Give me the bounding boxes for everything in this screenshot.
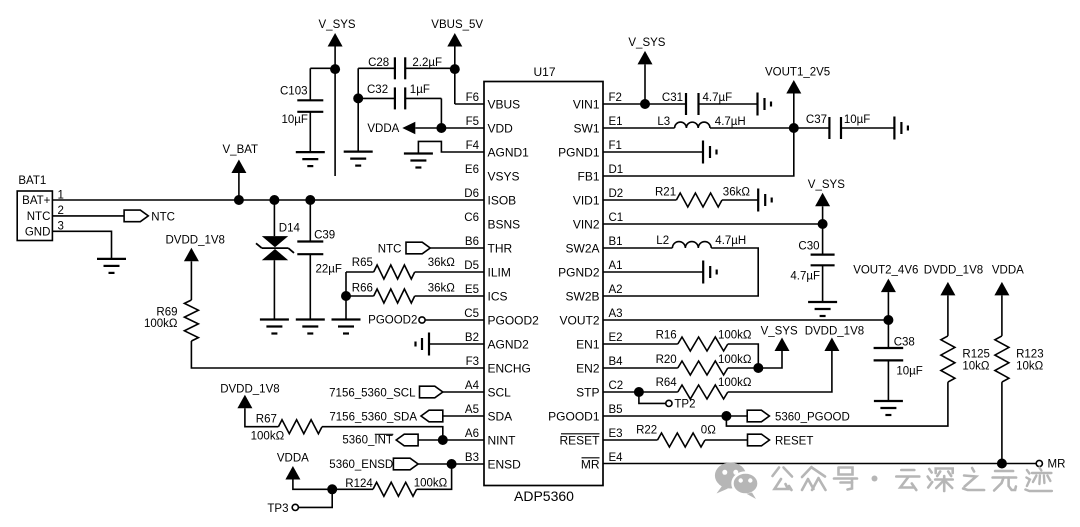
svg-text:VOUT2_4V6: VOUT2_4V6 — [853, 265, 918, 277]
watermark separator dot — [872, 476, 878, 482]
node junction STP/TP2 — [634, 387, 644, 397]
svg-text:ISOB: ISOB — [488, 193, 517, 207]
svg-text:PGOOD2: PGOOD2 — [368, 314, 417, 326]
svg-text:4.7µF: 4.7µF — [703, 92, 733, 104]
svg-text:U17: U17 — [534, 65, 556, 79]
svg-text:100kΩ: 100kΩ — [718, 329, 752, 341]
resistor R69 — [184, 300, 198, 341]
svg-text:VDDA: VDDA — [367, 123, 399, 135]
svg-text:F1: F1 — [609, 140, 622, 152]
svg-text:A3: A3 — [609, 308, 623, 320]
svg-text:NTC: NTC — [151, 212, 175, 224]
svg-text:E6: E6 — [465, 164, 479, 176]
ground (PGND2) — [702, 261, 704, 284]
svg-text:B1: B1 — [609, 236, 623, 248]
resistor R21 — [676, 193, 722, 207]
wire PGOOD1 to R125 — [726, 382, 948, 426]
svg-text:NTC: NTC — [378, 243, 402, 255]
svg-text:FB1: FB1 — [577, 169, 599, 183]
wire L2 to SW2B — [603, 248, 758, 296]
svg-text:VIN1: VIN1 — [573, 97, 600, 111]
node junction ENSD/R124 — [447, 459, 457, 469]
svg-text:36kΩ: 36kΩ — [428, 257, 456, 269]
wire PGOOD1 to flag — [603, 415, 747, 417]
svg-text:L2: L2 — [656, 235, 669, 247]
svg-text:C37: C37 — [806, 114, 827, 126]
wire L3 to VOUT1 node — [710, 127, 829, 129]
svg-text:TP3: TP3 — [267, 503, 288, 515]
svg-text:GND: GND — [25, 226, 51, 238]
watermark text 迹 — [1039, 468, 1041, 471]
ground (R65/R66) — [332, 318, 361, 320]
svg-text:VDD: VDD — [488, 121, 514, 135]
wire AGND2 stub B2 — [429, 343, 484, 345]
wire D14 top — [273, 200, 275, 236]
wire R123 bottom lead — [1001, 382, 1003, 463]
svg-text:10µF: 10µF — [282, 114, 308, 126]
terminal TP2 — [666, 400, 672, 406]
svg-text:D5: D5 — [464, 260, 479, 272]
resistor R123 — [995, 336, 1009, 382]
svg-text:R123: R123 — [1016, 348, 1044, 360]
node junction VBUS_5V/C28 — [450, 64, 460, 74]
svg-text:MR: MR — [581, 457, 600, 471]
svg-text:100kΩ: 100kΩ — [251, 431, 285, 443]
svg-text:5360_INT: 5360_INT — [342, 435, 393, 447]
inductor L2 — [672, 242, 711, 248]
svg-text:D1: D1 — [609, 164, 624, 176]
svg-text:E4: E4 — [609, 452, 624, 464]
svg-text:THR: THR — [488, 241, 513, 255]
watermark text 众 — [802, 467, 812, 477]
ground (C103) — [296, 151, 325, 153]
wire R67 left lead — [245, 408, 279, 427]
wire D14 bottom — [273, 260, 275, 319]
wire VOUT1 stem — [793, 94, 795, 129]
wire R16 to EN2 node — [728, 344, 759, 368]
resistor R67 — [278, 420, 322, 434]
svg-text:SW2B: SW2B — [565, 289, 599, 303]
svg-text:PGOOD1: PGOOD1 — [548, 409, 600, 423]
svg-text:4.7µH: 4.7µH — [715, 235, 746, 247]
svg-text:EN2: EN2 — [576, 361, 600, 375]
resistor R64 — [678, 385, 728, 399]
svg-text:VDDA: VDDA — [992, 265, 1024, 277]
svg-text:A6: A6 — [465, 428, 479, 440]
svg-text:E3: E3 — [609, 428, 623, 440]
wire SW2A to L2 — [603, 247, 672, 249]
svg-text:E5: E5 — [465, 284, 479, 296]
svg-text:100kΩ: 100kΩ — [718, 377, 752, 389]
svg-text:VDDA: VDDA — [277, 452, 309, 464]
node junction VIN2 — [818, 219, 828, 229]
svg-text:B2: B2 — [465, 332, 479, 344]
svg-text:NTC: NTC — [27, 211, 51, 223]
ground (C30) — [808, 301, 837, 303]
node junction C39 — [305, 195, 315, 205]
wire R69 to ENCHG pin F3 — [191, 341, 484, 368]
node junction D14 — [269, 195, 279, 205]
wire R123 top lead — [1001, 295, 1003, 336]
svg-text:R20: R20 — [656, 354, 677, 366]
svg-text:C5: C5 — [464, 308, 479, 320]
ground (AGND1) — [404, 152, 433, 154]
capacitor C28 — [358, 67, 395, 69]
capacitor C39 — [309, 200, 311, 242]
svg-text:C30: C30 — [798, 240, 819, 252]
svg-text:STP: STP — [576, 385, 599, 399]
svg-text:VSYS: VSYS — [488, 169, 520, 183]
net flag RESET — [748, 434, 770, 446]
svg-text:A5: A5 — [465, 404, 479, 416]
watermark WeChat icon — [715, 463, 746, 489]
svg-text:V_SYS: V_SYS — [628, 37, 665, 49]
svg-text:0Ω: 0Ω — [701, 424, 716, 436]
svg-text:10kΩ: 10kΩ — [1016, 360, 1044, 372]
wire VDDA to R124 — [293, 480, 373, 490]
capacitor C30 — [822, 224, 824, 255]
svg-text:VBUS_5V: VBUS_5V — [431, 19, 483, 31]
wire SW1 to L3 — [603, 127, 675, 129]
wire GND pin to ground — [52, 231, 111, 259]
svg-text:A1: A1 — [609, 260, 623, 272]
ground (PGND1) — [702, 141, 704, 164]
svg-text:E1: E1 — [609, 116, 623, 128]
resistor R66 — [374, 289, 415, 303]
watermark text 公 — [773, 468, 780, 477]
svg-text:DVDD_1V8: DVDD_1V8 — [220, 383, 279, 395]
wire R69 top lead — [190, 261, 192, 300]
svg-text:4.7µF: 4.7µF — [790, 270, 820, 282]
wire R65 left lead — [346, 271, 374, 273]
wire R21 to ground — [722, 199, 758, 201]
svg-text:F3: F3 — [466, 356, 479, 368]
svg-text:C28: C28 — [368, 57, 389, 69]
resistor R20 — [678, 361, 728, 375]
wire BAT+ to ISOB (main battery net) — [52, 199, 484, 201]
svg-text:DVDD_1V8: DVDD_1V8 — [166, 235, 225, 247]
diode D14 (bidirectional TVS) — [262, 236, 288, 247]
svg-text:C103: C103 — [280, 86, 308, 98]
svg-text:EN1: EN1 — [576, 337, 600, 351]
wire V_BAT stem — [238, 173, 240, 200]
wire VIN2 to V_SYS — [603, 223, 823, 225]
resistor R65 — [374, 265, 415, 279]
svg-text:10µF: 10µF — [844, 114, 870, 126]
resistor R22 — [658, 433, 706, 447]
wire MR net — [603, 463, 1036, 465]
svg-text:B3: B3 — [465, 452, 479, 464]
node junction EN1/EN2 — [753, 363, 763, 373]
svg-text:B6: B6 — [465, 236, 479, 248]
svg-text:F2: F2 — [609, 92, 622, 104]
wire VBUS_5V vertical — [454, 47, 456, 105]
svg-text:36kΩ: 36kΩ — [723, 186, 751, 198]
wire C103 to V_SYS — [310, 67, 335, 69]
svg-text:V_SYS: V_SYS — [319, 19, 356, 31]
svg-text:100kΩ: 100kΩ — [414, 477, 448, 489]
watermark text 无 — [995, 470, 1013, 473]
svg-text:RESET: RESET — [559, 433, 600, 447]
svg-text:VBUS: VBUS — [488, 97, 521, 111]
svg-text:PGND1: PGND1 — [558, 145, 600, 159]
svg-text:RESET: RESET — [775, 435, 813, 447]
wire SCL stub A4 — [443, 391, 484, 393]
wire FB1 to VOUT1 — [603, 128, 794, 176]
svg-text:PGND2: PGND2 — [558, 265, 600, 279]
svg-text:VIN2: VIN2 — [573, 217, 600, 231]
terminal MR — [1036, 460, 1042, 466]
svg-text:R16: R16 — [656, 329, 677, 341]
wire R65/R66 vertical — [345, 272, 347, 320]
wire V_SYS stem (VIN1) — [644, 64, 646, 104]
ground (C31) — [756, 93, 758, 116]
ground (AGND2) — [414, 342, 416, 347]
ground (C37) — [893, 117, 895, 140]
inductor L3 — [675, 122, 710, 128]
wire VIN1 to C31 — [603, 103, 686, 105]
ground (D14) — [260, 318, 289, 320]
svg-text:C32: C32 — [367, 84, 388, 96]
node junction C32 left — [353, 93, 363, 103]
svg-text:BSNS: BSNS — [488, 217, 521, 231]
svg-text:AGND2: AGND2 — [488, 337, 530, 351]
wire PGOOD2 stub C5 — [425, 319, 484, 321]
capacitor C103 — [309, 68, 311, 100]
wire NINT stub A6 — [418, 439, 484, 441]
svg-text:R21: R21 — [655, 186, 676, 198]
svg-text:TP2: TP2 — [674, 399, 695, 411]
svg-text:100kΩ: 100kΩ — [144, 318, 178, 330]
capacitor C32 — [358, 97, 395, 99]
svg-text:NINT: NINT — [488, 433, 517, 447]
wire C32 to VDD pin — [440, 98, 442, 128]
svg-text:R125: R125 — [962, 348, 990, 360]
node junction VIN1/V_SYS — [640, 99, 650, 109]
node junction PGOOD1 — [721, 411, 731, 421]
svg-text:SCL: SCL — [488, 385, 512, 399]
svg-text:ENSD: ENSD — [488, 457, 522, 471]
svg-text:ILIM: ILIM — [488, 265, 511, 279]
wire ENSD stub B3 — [418, 463, 484, 465]
wire VOUT2 stem — [887, 292, 889, 320]
svg-text:A4: A4 — [465, 380, 480, 392]
svg-text:1µF: 1µF — [410, 84, 430, 96]
capacitor C37 — [828, 117, 830, 139]
wire VDD stub F5 — [415, 127, 484, 129]
svg-text:E2: E2 — [609, 332, 623, 344]
svg-text:ICS: ICS — [488, 289, 508, 303]
wire R64 to DVDD_1V8 — [728, 351, 832, 392]
svg-text:SW2A: SW2A — [565, 241, 599, 255]
resistor R124 — [373, 482, 417, 496]
svg-text:C39: C39 — [314, 230, 335, 242]
ground (C38) — [874, 400, 903, 402]
wire C37 to ground — [841, 127, 894, 129]
wire R65 to ILIM pin D5 — [415, 271, 484, 273]
svg-text:C2: C2 — [609, 380, 624, 392]
wire SDA stub A5 — [443, 415, 484, 417]
svg-text:5360_ENSD: 5360_ENSD — [329, 459, 393, 471]
svg-text:VOUT2: VOUT2 — [559, 313, 599, 327]
svg-text:C1: C1 — [609, 212, 624, 224]
svg-text:R69: R69 — [156, 306, 177, 318]
svg-text:F4: F4 — [466, 140, 480, 152]
net flag 5360_PGOOD — [747, 410, 769, 422]
svg-text:VID1: VID1 — [573, 193, 600, 207]
svg-text:AGND1: AGND1 — [488, 145, 530, 159]
svg-text:L3: L3 — [657, 116, 670, 128]
wire R66 to ICS pin E5 — [415, 295, 484, 297]
svg-text:36kΩ: 36kΩ — [428, 282, 456, 294]
svg-text:22µF: 22µF — [316, 264, 342, 276]
node junction NINT/R67 — [438, 435, 448, 445]
wire PGND1 to ground — [603, 151, 703, 153]
wire R125 top lead — [947, 295, 949, 336]
wire EN1 to R16 — [603, 343, 678, 345]
op-amp U17 (ADP5360 IC body) — [484, 82, 603, 486]
svg-text:R67: R67 — [256, 414, 277, 426]
wire EN2 node to V_SYS — [728, 351, 782, 368]
svg-text:D2: D2 — [609, 188, 624, 200]
node junction TP3/R124 — [327, 484, 337, 494]
svg-text:ENCHG: ENCHG — [488, 361, 531, 375]
wire C31 to ground — [699, 103, 758, 105]
svg-text:10µF: 10µF — [896, 365, 922, 377]
svg-text:VOUT1_2V5: VOUT1_2V5 — [765, 66, 830, 78]
svg-text:V_SYS: V_SYS — [761, 325, 798, 337]
ground (BAT1 GND) — [97, 258, 126, 260]
wire TP3 to R124 — [298, 489, 332, 507]
svg-text:D14: D14 — [279, 222, 301, 234]
svg-text:F6: F6 — [466, 92, 479, 104]
wire R66 left lead — [346, 295, 374, 297]
svg-text:2.2µF: 2.2µF — [412, 57, 442, 69]
svg-text:7156_5360_SDA: 7156_5360_SDA — [329, 412, 417, 424]
net flag NTC (battery) — [124, 210, 148, 222]
svg-text:SW1: SW1 — [573, 121, 599, 135]
ground (C39) — [296, 318, 325, 320]
wire STP to TP2 — [639, 392, 666, 403]
node junction VOUT1 — [789, 123, 799, 133]
svg-text:SDA: SDA — [488, 409, 513, 423]
wire PGND2 to ground — [603, 271, 703, 273]
wire STP to R64 — [603, 391, 678, 393]
wire C28/C32 left vertical to ground — [357, 68, 359, 151]
svg-text:B5: B5 — [609, 404, 623, 416]
svg-text:7156_5360_SCL: 7156_5360_SCL — [329, 388, 416, 400]
svg-text:C31: C31 — [662, 92, 683, 104]
svg-text:MR: MR — [1048, 458, 1066, 470]
wire EN2 to R20 — [603, 367, 678, 369]
node junction R66 — [341, 291, 351, 301]
svg-text:DVDD_1V8: DVDD_1V8 — [805, 325, 864, 337]
svg-text:F5: F5 — [466, 116, 479, 128]
svg-text:R64: R64 — [656, 377, 678, 389]
svg-text:D6: D6 — [464, 188, 479, 200]
watermark text 之 — [972, 468, 974, 472]
svg-text:B4: B4 — [609, 356, 624, 368]
svg-text:PGOOD2: PGOOD2 — [488, 313, 540, 327]
wire THR stub B6 — [430, 247, 484, 249]
svg-text:10kΩ: 10kΩ — [962, 360, 990, 372]
svg-text:ADP5360: ADP5360 — [514, 488, 574, 504]
svg-text:V_SYS: V_SYS — [808, 179, 845, 191]
capacitor C31 — [685, 93, 687, 115]
svg-text:BAT1: BAT1 — [18, 175, 46, 187]
wire VID1 to R21 — [603, 199, 676, 201]
wire AGND1 to ground — [418, 141, 484, 153]
node junction V_BAT — [234, 195, 244, 205]
svg-text:A2: A2 — [609, 284, 623, 296]
svg-text:C38: C38 — [894, 337, 915, 349]
wire RESET to R22 — [603, 439, 658, 441]
wire VBUS stub F6 — [455, 103, 484, 105]
wire V_SYS vertical to VSYS pin — [334, 47, 336, 177]
wire R67 to NINT net — [322, 427, 443, 440]
wire NTC pin to flag — [52, 215, 124, 217]
wire R22 to flag — [705, 439, 748, 441]
ground (R21) — [757, 189, 759, 212]
node junction MR/R123 — [997, 459, 1007, 469]
ground (C28/C32) — [344, 151, 373, 153]
capacitor C38 — [887, 320, 889, 348]
watermark text 云 — [901, 469, 914, 472]
svg-text:R66: R66 — [352, 282, 373, 294]
svg-text:C6: C6 — [464, 212, 479, 224]
watermark text 号 — [839, 468, 853, 475]
resistor R125 — [941, 336, 955, 382]
node junction VDD/C32 — [436, 123, 446, 133]
node junction VOUT2 — [883, 315, 893, 325]
wire VOUT2 net — [603, 319, 888, 321]
svg-text:V_BAT: V_BAT — [223, 144, 259, 156]
svg-text:R124: R124 — [345, 478, 373, 490]
svg-text:R65: R65 — [352, 257, 373, 269]
svg-text:5360_PGOOD: 5360_PGOOD — [775, 411, 850, 423]
svg-text:DVDD_1V8: DVDD_1V8 — [924, 265, 983, 277]
wire V_SYS stem (VIN2) — [822, 206, 824, 224]
svg-text:R22: R22 — [636, 424, 657, 436]
node junction V_SYS/C103 — [330, 64, 340, 74]
resistor R16 — [678, 337, 728, 351]
svg-text:100kΩ: 100kΩ — [718, 354, 752, 366]
svg-text:4.7µH: 4.7µH — [715, 116, 746, 128]
svg-text:BAT+: BAT+ — [22, 195, 51, 207]
watermark text 深 — [929, 469, 932, 473]
wire R124 to ENSD — [417, 464, 452, 489]
